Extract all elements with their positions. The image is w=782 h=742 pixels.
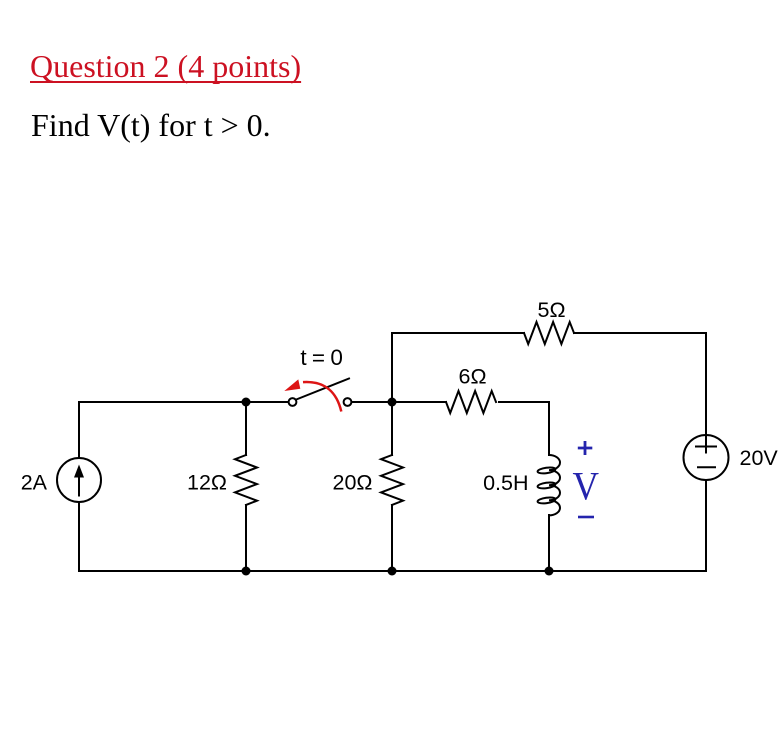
- junction dot: inductor bottom: [545, 567, 554, 576]
- wire: top horizontal main wire, left of switch: [79, 401, 288, 403]
- switch blade: [295, 379, 349, 401]
- resistor R 20ohm zigzag: [381, 455, 403, 505]
- wire: main wire from switch right terminal to inductor branch: [352, 401, 549, 403]
- current source I1 circle: [57, 458, 101, 502]
- resistor R 5ohm zigzag: [524, 322, 574, 344]
- inductor loop 2: [537, 481, 556, 489]
- switch terminal left: [289, 398, 297, 406]
- junction dot: node at 20-ohm top: [388, 398, 397, 407]
- svg-text:t = 0: t = 0: [300, 345, 343, 370]
- inductor loop 1: [537, 466, 556, 474]
- wire: 12-ohm branch leads: [245, 402, 247, 571]
- wire: left rail bottom (current source bottom lead): [78, 502, 80, 571]
- switch arrow head: [284, 379, 300, 391]
- wire: left rail top (current source top lead): [78, 402, 80, 458]
- svg-text:2A: 2A: [21, 471, 48, 495]
- current source arrow shaft: [78, 471, 80, 496]
- voltage source minus sign: [698, 466, 715, 468]
- inductor loop 3: [537, 496, 556, 504]
- wire: right rail to voltage source: [705, 333, 707, 571]
- resistor R 6ohm zigzag: [446, 391, 496, 413]
- switch terminal right: [344, 398, 352, 406]
- svg-text:V: V: [573, 463, 600, 508]
- label plus (blue): [578, 441, 593, 455]
- wire: top branch left of 5-ohm: [392, 332, 524, 334]
- svg-text:0.5H: 0.5H: [483, 471, 528, 495]
- junction dot: 20-ohm bottom: [388, 567, 397, 576]
- wire: 20-ohm branch leads: [391, 402, 393, 571]
- svg-text:20V: 20V: [740, 446, 779, 470]
- wire: node vertical up to top branch: [391, 333, 393, 402]
- junction dot: 12-ohm bottom: [242, 567, 251, 576]
- inductor L 0.5H coil: [549, 455, 560, 515]
- voltage source V1 circle: [684, 435, 729, 480]
- wire: inductor branch leads: [548, 402, 550, 571]
- current source arrowhead: [74, 465, 84, 478]
- junction dot: 12-ohm top: [242, 398, 251, 407]
- prompt: Find V(t) for t &gt; 0.: [31, 107, 271, 144]
- switch opening arrow (red arc): [303, 382, 341, 412]
- svg-text:5Ω: 5Ω: [537, 298, 565, 322]
- title: Question 2 (4 points): [30, 48, 301, 85]
- svg-text:6Ω: 6Ω: [458, 365, 486, 389]
- resistor R 12ohm zigzag: [235, 455, 257, 505]
- label minus (blue): [578, 516, 594, 519]
- svg-text:12Ω: 12Ω: [187, 471, 227, 495]
- voltage source plus sign: [696, 446, 716, 448]
- wire: bottom rail: [79, 570, 706, 572]
- svg-text:20Ω: 20Ω: [333, 471, 373, 495]
- wire: top branch right of 5-ohm: [574, 332, 706, 334]
